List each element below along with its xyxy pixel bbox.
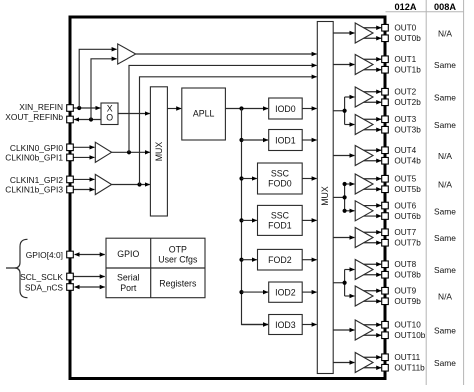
svg-text:OUT6b: OUT6b (394, 212, 421, 221)
svg-text:OUT10: OUT10 (394, 321, 421, 330)
svg-text:OUT8b: OUT8b (394, 271, 421, 280)
wire output MUX to OUT10 buffer (333, 329, 354, 331)
wire OUT11 true output (364, 356, 382, 358)
svg-text:SSC: SSC (271, 210, 290, 220)
pin OUT7b (382, 239, 389, 246)
svg-text:OUT2: OUT2 (394, 88, 416, 97)
pin OUT0b (382, 35, 389, 42)
wire IOD0 to output MUX (302, 108, 316, 110)
wire IOD3 to output MUX (302, 324, 316, 326)
svg-text:XIN_REFIN: XIN_REFIN (19, 102, 63, 112)
pin OUT1b (382, 66, 389, 73)
wire OUT1 true output (364, 58, 382, 60)
output buffer OUT7 (355, 228, 373, 248)
wire output MUX to OUT11 buffer (333, 362, 354, 364)
wire OUT6 true output (364, 205, 382, 207)
table header separator line (386, 0, 464, 385)
svg-text:Same: Same (434, 326, 456, 336)
svg-text:FOD1: FOD1 (268, 221, 292, 231)
wire XIN to XO (73, 107, 100, 109)
output buffer OUT11 (355, 353, 373, 373)
node group junction OUT8/OUT9 (343, 281, 347, 285)
wire IOD2 to output MUX (302, 291, 316, 293)
wire output MUX to OUT4 buffer (333, 155, 354, 157)
svg-text:OUT3b: OUT3b (394, 126, 421, 135)
wire CLKIN0 up to output MUX (129, 65, 317, 152)
divider IOD0 (269, 98, 303, 119)
pin OUT6 (382, 202, 389, 209)
wire SSC FOD1 to output MUX (302, 219, 316, 221)
pin SDA_nCS (67, 284, 74, 291)
pin OUT1 (382, 56, 389, 63)
wire OUT8 complement output (364, 274, 382, 276)
svg-text:SCL_SCLK: SCL_SCLK (20, 272, 63, 282)
svg-text:OUT5: OUT5 (394, 175, 416, 184)
wire CLKIN0 buffer to input MUX (112, 151, 150, 153)
pin CLKIN1b_GPI3 (67, 186, 74, 193)
pin OUT5 (382, 175, 389, 182)
wire SCL to serial port (73, 276, 104, 278)
APLL (182, 88, 226, 140)
svg-text:OUT4b: OUT4b (394, 157, 421, 166)
node trunk junction IOD1 (239, 138, 243, 142)
svg-text:IOD2: IOD2 (275, 287, 296, 297)
svg-text:Same: Same (434, 93, 456, 103)
wire OUT9 true output (364, 290, 382, 292)
output buffer OUT2 (355, 87, 373, 107)
svg-text:XOUT_REFINb: XOUT_REFINb (5, 112, 63, 122)
wire CLKIN1 buffer to input MUX (112, 184, 150, 186)
wire IOD1 to output MUX (302, 139, 316, 141)
wire trunk to IOD2 (242, 291, 269, 293)
wire group split OUT2/OUT3 (344, 97, 346, 125)
pin OUT8b (382, 271, 389, 278)
svg-text:N/A: N/A (438, 151, 452, 161)
wire trunk to IOD1 (242, 139, 269, 141)
node group junction OUT2/OUT3 (343, 109, 347, 113)
wire group split OUT5/OUT6 (344, 184, 346, 211)
svg-text:User Cfgs: User Cfgs (158, 254, 198, 264)
node XOUT junction (89, 117, 93, 121)
svg-text:012A: 012A (395, 2, 417, 12)
svg-text:OUT1: OUT1 (394, 55, 416, 64)
wire OUT8 true output (364, 263, 382, 265)
wire group split OUT8/OUT9 (344, 270, 346, 297)
output buffer OUT3 (355, 115, 373, 135)
svg-text:Serial: Serial (117, 272, 140, 282)
node trunk junction FOD2 (239, 258, 243, 262)
output buffer OUT8 (355, 260, 373, 280)
pin OUT5b (382, 186, 389, 193)
pin OUT11b (382, 364, 389, 371)
svg-text:OUT5b: OUT5b (394, 185, 421, 194)
wire OUT11 complement output (364, 367, 382, 369)
wire GPIO bidirectional (75, 254, 105, 256)
pin SCL_SCLK (67, 273, 74, 280)
input buffer CLKIN0 (95, 142, 111, 162)
svg-text:OUT11: OUT11 (394, 353, 420, 362)
output buffer OUT5 (355, 174, 373, 194)
pin OUT3b (382, 126, 389, 133)
svg-text:OUT10b: OUT10b (394, 331, 425, 340)
ref bypass buffer (118, 44, 136, 64)
svg-text:Same: Same (434, 265, 456, 275)
wire OUT0 complement output (364, 37, 382, 39)
wire OUT2 true output (364, 91, 382, 93)
output buffer OUT6 (355, 201, 373, 221)
wire output MUX to OUT5/OUT6 group (333, 196, 344, 198)
svg-text:IOD1: IOD1 (275, 135, 296, 145)
pin OUT9 (382, 287, 389, 294)
pin OUT4 (382, 147, 389, 154)
divider IOD3 (269, 315, 303, 335)
svg-text:CLKIN0_GPI0: CLKIN0_GPI0 (10, 143, 63, 153)
wire CLKIN0_GPI0 to buffer (73, 146, 94, 148)
svg-text:OUT0: OUT0 (394, 24, 416, 33)
pin OUT10 (382, 321, 389, 328)
wire OUT7 true output (364, 231, 382, 233)
node XIN junction (77, 106, 81, 110)
svg-text:OUT4: OUT4 (394, 146, 416, 155)
svg-text:OUT7b: OUT7b (394, 239, 421, 248)
wire OUT4 complement output (364, 160, 382, 162)
svg-text:APLL: APLL (193, 109, 215, 119)
chip outline box (70, 17, 385, 379)
wire OUT1 complement output (364, 69, 382, 71)
wire output MUX to OUT7 buffer (333, 237, 354, 239)
output buffer OUT10 (355, 320, 373, 340)
wire divider trunk (242, 109, 269, 325)
svg-text:N/A: N/A (438, 180, 452, 190)
pin GPIO[4:0] (67, 251, 74, 258)
wire FOD2 to output MUX (302, 259, 316, 261)
wire output MUX to OUT1 buffer (333, 64, 354, 66)
svg-text:FOD2: FOD2 (268, 255, 292, 265)
pin XIN_REFIN (67, 105, 74, 112)
svg-text:IOD3: IOD3 (275, 320, 296, 330)
svg-text:O: O (106, 113, 113, 123)
node CLKIN1 junction (137, 182, 141, 186)
svg-text:OUT3: OUT3 (394, 115, 416, 124)
svg-text:OUT0b: OUT0b (394, 34, 421, 43)
output buffer OUT4 (355, 146, 373, 166)
svg-text:008A: 008A (434, 2, 456, 12)
svg-text:MUX: MUX (320, 186, 330, 206)
svg-text:Port: Port (120, 283, 137, 293)
pin OUT6b (382, 213, 389, 220)
svg-text:N/A: N/A (438, 292, 452, 302)
svg-text:N/A: N/A (438, 29, 452, 39)
svg-text:GPIO[4:0]: GPIO[4:0] (26, 250, 63, 260)
pin OUT9b (382, 298, 389, 305)
node trunk junction IOD2 (239, 290, 243, 294)
wire XOUT from XO (74, 119, 101, 121)
svg-text:GPIO: GPIO (117, 249, 139, 259)
output buffer OUT9 (355, 286, 373, 306)
wire OUT5 complement output (364, 188, 382, 190)
svg-text:SDA_nCS: SDA_nCS (25, 282, 64, 292)
wire OUT6 complement output (364, 215, 382, 217)
pin XOUT_REFINb (67, 116, 74, 123)
output MUX (317, 22, 333, 374)
pin OUT8 (382, 261, 389, 268)
svg-text:IOD0: IOD0 (275, 104, 296, 114)
wire output MUX to OUT2/OUT3 group (333, 110, 344, 112)
pin CLKIN1_GPI2 (67, 176, 74, 183)
wire OUT4 true output (364, 149, 382, 151)
pin OUT2 (382, 88, 389, 95)
pin OUT0 (382, 24, 389, 31)
wire XO to input MUX (118, 113, 150, 115)
node trunk junction SSC FOD1 (239, 218, 243, 222)
svg-text:OUT1b: OUT1b (394, 66, 421, 75)
pin CLKIN0_GPI0 (67, 144, 74, 151)
output buffer OUT1 (355, 55, 373, 75)
divider FOD2 (258, 249, 303, 270)
svg-text:Registers: Registers (159, 278, 197, 288)
divider SSC FOD0 (258, 163, 303, 194)
wire OUT3 true output (364, 118, 382, 120)
svg-text:OUT11b: OUT11b (394, 364, 425, 373)
wire trunk to SSC FOD0 (242, 178, 257, 180)
wire XOUT up to ref buffer (91, 59, 117, 120)
wire output MUX to OUT0 buffer (333, 32, 354, 34)
GPIO-OTP-Serial-Registers block (106, 238, 205, 298)
pin OUT10b (382, 332, 389, 339)
wire OUT10 complement output (364, 334, 382, 336)
svg-text:Same: Same (434, 60, 456, 70)
svg-text:Same: Same (434, 233, 456, 243)
node trunk junction SSC FOD0 (239, 176, 243, 180)
wire OUT9 complement output (364, 300, 382, 302)
svg-text:OUT9: OUT9 (394, 287, 416, 296)
divider SSC FOD1 (258, 205, 303, 235)
input buffer CLKIN1 (95, 174, 111, 194)
wire input MUX to APLL (167, 108, 181, 110)
wire OUT7 complement output (364, 242, 382, 244)
pin OUT7 (382, 229, 389, 236)
wire APLL to IOD0 (225, 108, 268, 110)
pin OUT4b (382, 157, 389, 164)
wire SSC FOD0 to output MUX (302, 178, 316, 180)
node APLL output junction (239, 106, 243, 110)
XO oscillator U-XO (101, 103, 118, 125)
wire XIN up to ref buffer (79, 49, 116, 108)
wire CLKIN1b_GPI3 to buffer (73, 189, 94, 191)
pin OUT2b (382, 99, 389, 106)
divider IOD2 (269, 282, 303, 302)
wire CLKIN0b_GPI1 to buffer (73, 156, 94, 158)
svg-text:OUT6: OUT6 (394, 201, 416, 210)
svg-text:Same: Same (434, 206, 456, 216)
svg-text:FOD0: FOD0 (268, 179, 292, 189)
svg-text:SSC: SSC (271, 169, 290, 179)
wire trunk to SSC FOD1 (242, 219, 257, 221)
wire OUT5 true output (364, 178, 382, 180)
output buffer OUT0 (355, 23, 373, 43)
svg-text:Same: Same (434, 358, 456, 368)
wire CLKIN1_GPI2 to buffer (73, 178, 94, 180)
svg-text:OUT2b: OUT2b (394, 98, 421, 107)
wire OUT10 true output (364, 324, 382, 326)
svg-text:OTP: OTP (169, 244, 187, 254)
node CLKIN0 junction (127, 150, 131, 154)
wire ref buffer to output MUX (136, 53, 317, 55)
svg-text:Same: Same (434, 120, 456, 130)
wire OUT3 complement output (364, 129, 382, 131)
pin OUT11 (382, 354, 389, 361)
wire output MUX to OUT8/OUT9 group (333, 282, 344, 284)
wire CLKIN1 up to output MUX (140, 77, 317, 185)
svg-text:OUT9b: OUT9b (394, 297, 421, 306)
pin OUT3 (382, 116, 389, 123)
wire trunk to IOD3 (242, 324, 269, 326)
divider IOD1 (269, 130, 303, 151)
brace serial group (6, 239, 28, 297)
pin CLKIN0b_GPI1 (67, 154, 74, 161)
wire OUT0 true output (364, 27, 382, 29)
svg-text:CLKIN0b_GPI1: CLKIN0b_GPI1 (5, 153, 63, 163)
svg-text:MUX: MUX (154, 142, 164, 162)
input MUX (150, 87, 167, 216)
svg-text:OUT8: OUT8 (394, 260, 416, 269)
svg-text:CLKIN1b_GPI3: CLKIN1b_GPI3 (5, 184, 63, 194)
svg-text:OUT7: OUT7 (394, 228, 416, 237)
node group junction OUT5/OUT6 (343, 195, 347, 199)
wire SDA bidirectional (75, 286, 105, 288)
wire trunk to FOD2 (242, 259, 257, 261)
wire OUT2 complement output (364, 101, 382, 103)
